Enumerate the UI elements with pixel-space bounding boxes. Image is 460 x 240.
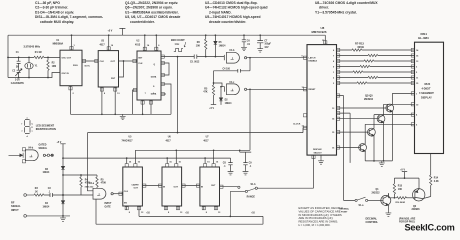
- resistor R14: [430, 175, 432, 185]
- wire: decimal +5V branch: [394, 177, 419, 179]
- resistor R6 pull-up: [205, 35, 207, 56]
- svg-text:1N914: 1N914: [43, 206, 50, 209]
- svg-text:74HC132: 74HC132: [85, 186, 95, 189]
- NAND gate U4-c: [227, 84, 247, 95]
- svg-text:OSC IN: OSC IN: [62, 73, 70, 75]
- svg-text:470K: 470K: [101, 182, 107, 185]
- transistor Q4: [368, 115, 415, 161]
- transistor Q3: [377, 104, 414, 161]
- svg-text:k = 1,000, M = 1,000,000.: k = 1,000, M = 1,000,000.: [299, 223, 331, 227]
- resistor R4: [80, 175, 82, 195]
- wire: gate U4-c input jog: [214, 83, 225, 92]
- svg-text:CLOCK: CLOCK: [293, 124, 301, 126]
- wire: bottom row Vdd drops: [127, 158, 205, 163]
- wire: U1 out to U3 clk: [82, 60, 98, 62]
- resistor R3: [34, 194, 44, 196]
- wire: U4-b output to U8 latch: [247, 57, 307, 59]
- segment resistor R10: [337, 66, 415, 68]
- svg-text:RST: RST: [111, 78, 116, 80]
- segment resistor R13: [337, 82, 415, 84]
- parts list column 3: [205, 1, 268, 24]
- svg-text:U4-b: U4-b: [28, 147, 34, 150]
- digit drive wire 2: [337, 118, 379, 120]
- svg-text:100µF: 100µF: [264, 44, 271, 46]
- wire: top section ground rail: [71, 113, 172, 115]
- svg-text:U1—MM5369AA oscillator/divider: U1—MM5369AA oscillator/divider.: [125, 10, 179, 14]
- svg-text:16V: 16V: [264, 47, 269, 49]
- wire: U2 Vdd drops: [145, 35, 157, 51]
- arrow into U4-d: [9, 153, 24, 158]
- svg-text:1N914: 1N914: [225, 102, 232, 105]
- svg-text:R7-R13: R7-R13: [355, 42, 364, 46]
- wire: gate line vertical to clock bus: [177, 57, 179, 133]
- wire: U1 ground pin: [70, 86, 72, 115]
- IC U7 CD4017 box: [200, 167, 220, 206]
- svg-text:10K: 10K: [398, 189, 403, 191]
- svg-text:47K: 47K: [203, 91, 208, 94]
- svg-text:MUX: MUX: [425, 82, 431, 86]
- parts list column 4: [315, 1, 378, 14]
- rf input terminal: [24, 194, 34, 197]
- svg-text:620Ω: 620Ω: [358, 45, 364, 49]
- svg-text:POINT: POINT: [341, 212, 348, 214]
- svg-text:D1-D4—1N4148 or equiv.: D1-D4—1N4148 or equiv.: [35, 10, 74, 14]
- connector X gated signal out: [46, 154, 54, 156]
- svg-text:CLK: CLK: [138, 63, 143, 65]
- svg-text:CONTROL: CONTROL: [366, 220, 379, 224]
- svg-text:R15: R15: [398, 185, 403, 187]
- diode D5: [214, 35, 216, 56]
- resistor R1: [34, 56, 44, 58]
- svg-text:RESET: RESET: [309, 89, 317, 91]
- svg-text:U4—74HC132 HCMOS high-speed qu: U4—74HC132 HCMOS high-speed quad: [205, 6, 268, 10]
- wire: gate enable vertical: [88, 133, 94, 191]
- svg-text:R14: R14: [434, 177, 439, 180]
- wire: oscillator bottom: [8, 73, 60, 78]
- wire: switch to U8 display select: [257, 155, 313, 188]
- svg-text:DISPLAY: DISPLAY: [421, 96, 432, 100]
- svg-text:C2—3-30 pF trimmer.: C2—3-30 pF trimmer.: [35, 6, 68, 10]
- resistor R16: [397, 197, 407, 199]
- svg-text:INPUT: INPUT: [11, 208, 19, 212]
- svg-text:4013: 4013: [135, 43, 141, 46]
- svg-text:7-SEGMENT: 7-SEGMENT: [419, 91, 434, 95]
- wire: U8 aux pin to S1-a: [337, 96, 355, 201]
- wire: bias node horizontal: [63, 174, 97, 176]
- svg-text:GATED: GATED: [39, 144, 47, 147]
- svg-text:1N914: 1N914: [219, 45, 226, 48]
- svg-text:Q2-Q5: Q2-Q5: [365, 93, 373, 97]
- svg-text:R1 1M: R1 1M: [35, 52, 42, 54]
- wire: S1-a to Q1 base: [368, 199, 383, 201]
- wire: bottom return rail 1: [139, 210, 263, 216]
- svg-text:DISPLAY: DISPLAY: [313, 148, 322, 151]
- segment resistor R8: [337, 55, 415, 57]
- svg-text:INPUT: INPUT: [105, 203, 112, 205]
- svg-text:S1-b: S1-b: [251, 184, 257, 186]
- svg-text:Y1—3.579545-MHz crystal.: Y1—3.579545-MHz crystal.: [315, 10, 357, 14]
- wire: Q6 collector to DIS1 decimal pin: [423, 154, 431, 199]
- svg-text:C4 100: C4 100: [223, 68, 231, 71]
- svg-text:3-30: 3-30: [15, 80, 20, 82]
- wire: U3 Vdd drop: [108, 35, 110, 50]
- svg-text:2N3906: 2N3906: [412, 209, 421, 211]
- svg-text:(PIN NOS. ARE: (PIN NOS. ARE: [399, 217, 416, 220]
- svg-text:U4-a: U4-a: [89, 182, 95, 185]
- notes block: [299, 206, 345, 227]
- svg-text:DECIMAL: DECIMAL: [366, 216, 378, 220]
- IC U8 MM74C926 box: [307, 45, 337, 156]
- transistor Q5: [359, 124, 415, 161]
- power +5V decimal: [402, 172, 407, 179]
- svg-text:U5—74HC4017 HCMOS high-speed: U5—74HC4017 HCMOS high-speed: [205, 15, 261, 19]
- svg-text:S1-a: S1-a: [359, 205, 365, 207]
- svg-text:SELECT: SELECT: [314, 152, 323, 154]
- transistor Q1: [381, 193, 391, 211]
- wire: U2 right loop 1: [161, 63, 169, 75]
- svg-text:CLK: CLK: [100, 61, 105, 63]
- capacitor C3: [44, 193, 93, 197]
- svg-text:4017: 4017: [166, 140, 172, 143]
- wire: U5 to U6: [142, 185, 162, 187]
- parts list column 2: [125, 1, 181, 24]
- NAND gate U4-b: [227, 52, 247, 63]
- wire: U4-a output to U5: [113, 193, 123, 195]
- resistor R5: [212, 85, 214, 95]
- NAND gate U4-a input gate: [93, 188, 113, 199]
- svg-text:OSC OUT: OSC OUT: [62, 57, 72, 59]
- svg-text:74HC4017: 74HC4017: [122, 140, 134, 143]
- capacitor C9: [240, 150, 252, 169]
- LED segment identification figure: [25, 120, 30, 134]
- wire: counter reset rail: [135, 150, 250, 163]
- svg-text:OUT: OUT: [211, 185, 216, 187]
- diode D3: [61, 166, 64, 169]
- svg-text:SIGNAL: SIGNAL: [39, 147, 48, 150]
- svg-text:U8—74C926 CMOS 4-digit counter: U8—74C926 CMOS 4-digit counter/MUX: [315, 1, 378, 5]
- svg-text:OUT: OUT: [111, 61, 116, 63]
- svg-text:C5 .0012: C5 .0012: [190, 62, 200, 64]
- svg-text:LATCH: LATCH: [309, 57, 316, 60]
- trimmer capacitor C2: [15, 69, 22, 78]
- svg-text:counter/divider.: counter/divider.: [130, 20, 155, 24]
- svg-text:SIGNAL: SIGNAL: [11, 204, 21, 208]
- wire: U8 ground pin: [320, 155, 322, 159]
- wire: U1 Vdd drop: [71, 35, 73, 50]
- wire: bottom return rail 2: [96, 199, 263, 224]
- segment resistor R11: [337, 71, 415, 73]
- svg-text:1N914: 1N914: [43, 171, 50, 174]
- svg-text:10K: 10K: [196, 46, 201, 48]
- svg-text:CLK: CLK: [124, 191, 129, 193]
- diode D4: [61, 201, 64, 204]
- resistor R2: [47, 57, 49, 77]
- wire: U2 right loop 2: [161, 84, 171, 114]
- transistor Q2: [386, 93, 415, 160]
- wire: U3 feedback loop: [119, 61, 124, 77]
- wire: U4-c output to U8 reset: [247, 88, 307, 90]
- svg-text:driver.: driver.: [319, 6, 329, 10]
- svg-text:4-DIGIT: 4-DIGIT: [422, 87, 432, 91]
- capacitor C5 decoupling: [242, 35, 246, 45]
- svg-text:60 Hz: 60 Hz: [85, 66, 90, 68]
- svg-text:CARRY: CARRY: [132, 184, 140, 187]
- capacitor C7 electrolytic: [257, 35, 263, 47]
- svg-text:3.3K: 3.3K: [434, 181, 439, 183]
- svg-text:RANGE: RANGE: [247, 195, 256, 198]
- svg-text:ENABLE: ENABLE: [309, 60, 318, 63]
- wire: U8 Vdd drop: [324, 35, 326, 44]
- wire: U8 aux pin 2: [337, 113, 351, 163]
- svg-text:IDENTIFICATION: IDENTIFICATION: [36, 127, 56, 131]
- svg-text:2N2222: 2N2222: [372, 193, 381, 195]
- IC U3 CD4017 box: [98, 51, 118, 87]
- segment resistor R12: [337, 77, 415, 79]
- capacitor C8: [228, 158, 232, 169]
- svg-text:+5 V: +5 V: [209, 108, 214, 110]
- svg-text:C1—36 pF, NPO: C1—36 pF, NPO: [35, 1, 60, 5]
- wire: U2 Q output line to gate U4-b: [161, 55, 224, 60]
- svg-text:SeekIC.com: SeekIC.com: [405, 223, 455, 233]
- digit drive wire 1: [337, 107, 388, 109]
- svg-text:4017: 4017: [100, 43, 106, 46]
- ground top section: [120, 114, 126, 119]
- svg-text:DATA: DATA: [151, 75, 157, 78]
- svg-text:2-input NAND.: 2-input NAND.: [209, 10, 232, 14]
- svg-text:2N3904: 2N3904: [364, 97, 374, 101]
- switch S1-a: [355, 197, 368, 201]
- svg-text:CALIBRATE: CALIBRATE: [11, 82, 25, 85]
- power +5V symbol top rail: [119, 28, 125, 35]
- power +5V below R5: [211, 104, 216, 106]
- svg-text:10M: 10M: [52, 66, 57, 68]
- IC U6 CD4017 box: [162, 167, 182, 206]
- transistor Q6: [412, 178, 425, 201]
- wire: +5V top rail: [8, 34, 325, 36]
- segment resistor R7: [337, 49, 415, 51]
- wire: U4-c output down to counter resets: [249, 89, 251, 150]
- svg-text:4017: 4017: [203, 140, 209, 143]
- svg-text:GL-3M4: GL-3M4: [418, 36, 429, 40]
- svg-text:U2—CD4013 CMOS dual flip-flop.: U2—CD4013 CMOS dual flip-flop.: [205, 1, 258, 5]
- resistor R5b: [96, 175, 98, 188]
- wire: clock bus to U8 clock pin: [303, 128, 307, 133]
- switch S1-b range: [230, 186, 257, 216]
- svg-text:END COUNT: END COUNT: [171, 40, 185, 42]
- wire: bottom row ground stubs: [127, 206, 216, 210]
- wire: U3 ground pins: [102, 87, 115, 114]
- IC U5 74HC4017 box: [123, 167, 143, 206]
- wire: U2 ground pins: [143, 100, 151, 114]
- crystal Y1: [25, 57, 33, 77]
- op IC U1 MM5369 box: [60, 50, 82, 85]
- wire: clock bus horizontal: [88, 132, 304, 134]
- segment resistor R9: [337, 60, 415, 62]
- IC U2 CD4013 box: [137, 51, 161, 100]
- wire: U3 out to U2: [124, 60, 138, 62]
- svg-text:3.579545 MHz: 3.579545 MHz: [24, 45, 41, 49]
- capacitor C4 coupling: [214, 58, 251, 85]
- wire: Q1 collector to decimal driver: [388, 193, 396, 198]
- rf input ground return: [24, 215, 70, 218]
- svg-text:MM5369A: MM5369A: [53, 43, 64, 46]
- svg-text:OUT: OUT: [134, 188, 139, 190]
- svg-text:OUT: OUT: [174, 187, 179, 189]
- parts list column 1: [35, 1, 103, 24]
- svg-text:EN: EN: [124, 203, 127, 205]
- junction dots oscillator: [7, 57, 9, 59]
- power +5V input clamp: [60, 144, 65, 167]
- resistor R15: [393, 178, 395, 198]
- svg-text:MM74C926: MM74C926: [312, 30, 327, 34]
- wire: U7 out to range switch: [220, 186, 238, 188]
- wire: U2 left pin to ground rail: [133, 90, 138, 114]
- svg-text:U4-b: U4-b: [229, 49, 235, 52]
- capacitor C5 series: [194, 55, 197, 59]
- wire: oscillator top: [8, 56, 60, 58]
- svg-text:Q6—2N2907, 2N3906 or equiv.: Q6—2N2907, 2N3906 or equiv.: [125, 6, 173, 10]
- digit drive wire 4: [337, 147, 361, 149]
- svg-text:LED SEGMENT: LED SEGMENT: [36, 123, 55, 127]
- svg-text:R16 560Ω: R16 560Ω: [396, 202, 406, 204]
- svg-text:U3, U6, U7—CD4017 CMOS decade: U3, U6, U7—CD4017 CMOS decade: [125, 15, 181, 19]
- svg-text:+5 V: +5 V: [400, 169, 405, 171]
- svg-text:cathode MUX display.: cathode MUX display.: [40, 20, 74, 24]
- wire: +5V rail bottom row: [63, 157, 231, 159]
- wire: U6 to U7: [182, 185, 200, 187]
- wire: emitter ground rail: [365, 160, 392, 162]
- svg-text:DIS1—GL3M4 4-digit, 7-segment,: DIS1—GL3M4 4-digit, 7-segment, common-: [35, 15, 103, 19]
- svg-text:RF: RF: [11, 201, 15, 205]
- svg-text:+5 V: +5 V: [108, 31, 113, 33]
- diode D2: [220, 87, 222, 105]
- capacitor C1: [17, 57, 21, 70]
- display DIS1 box: [415, 42, 444, 153]
- svg-text:decade counter/divider.: decade counter/divider.: [209, 20, 246, 24]
- NAND gate U4-d gated signal buffer: [25, 150, 45, 161]
- svg-text:U4-c: U4-c: [229, 81, 235, 84]
- svg-text:GATE: GATE: [105, 205, 112, 208]
- svg-text:Q1-Q5—2N2222, 2N3904 or equiv.: Q1-Q5—2N2222, 2N3904 or equiv.: [125, 1, 178, 5]
- digit drive wire 3: [337, 131, 370, 133]
- svg-text:+5 V: +5 V: [57, 142, 62, 144]
- svg-text:1K: 1K: [35, 192, 38, 194]
- wire: oscillator left drop: [7, 35, 9, 77]
